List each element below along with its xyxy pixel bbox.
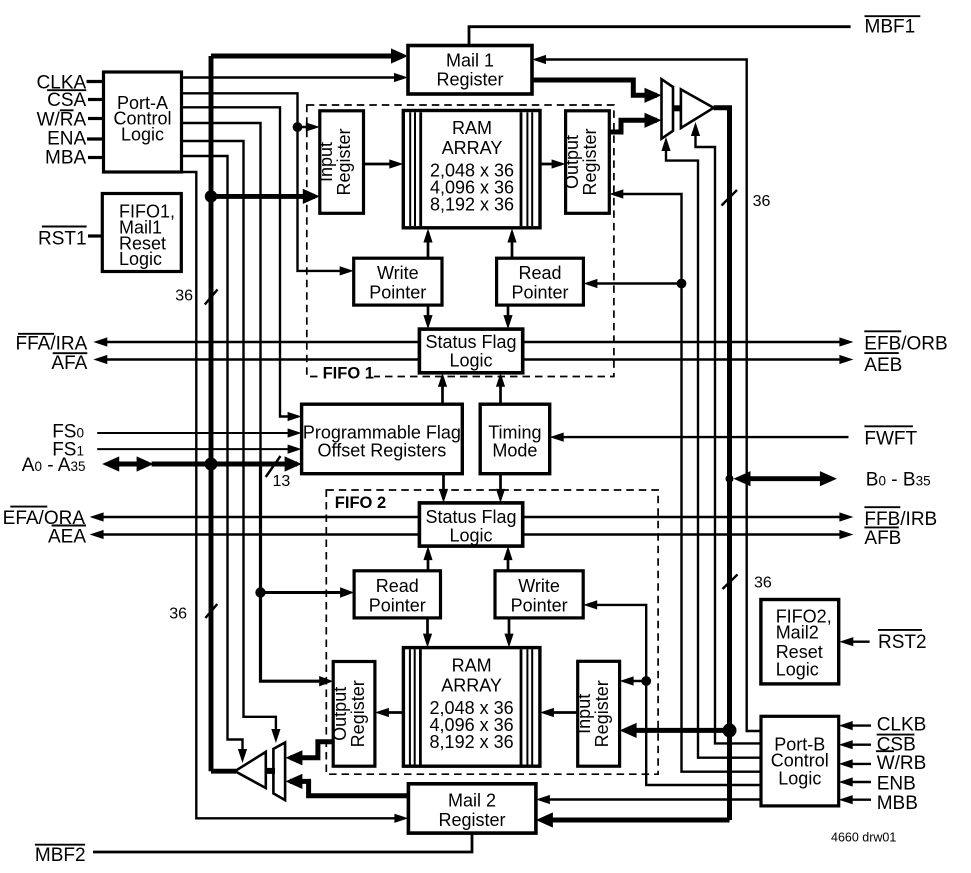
arrowhead AEA [90, 530, 104, 539]
arrowhead B bus toward bus line (left) [734, 471, 751, 486]
box Read Pointer 1 [497, 258, 584, 305]
svg-text:CSA: CSA [47, 90, 86, 111]
svg-text:Input: Input [574, 694, 594, 734]
arrowhead control into Mail 2 Register (left side) [394, 814, 408, 823]
arrowhead RAM 2 to Output Register 2 [375, 708, 389, 717]
wire Write Pointer 1 to Status Flag Logic 1 [427, 305, 430, 325]
svg-text:W/RB: W/RB [877, 753, 927, 774]
arrowhead Port-A control into Mail 1 Register [394, 73, 408, 82]
svg-text:8,192 x 36: 8,192 x 36 [430, 195, 514, 215]
svg-text:MBA: MBA [45, 147, 87, 168]
arrowhead Write Pointer 2 to Status Flag Logic 2 [503, 546, 512, 560]
arrowhead thick A bus into Mail 1 Register [391, 48, 408, 63]
wire Port-A read control via v4 to Read Pointer 2 and Output Register 2 [182, 123, 261, 464]
stub CLKB with arrowhead [843, 724, 871, 726]
wire Write Pointer 1 to RAM 1 [427, 232, 430, 258]
box Port-A Control Logic [104, 72, 182, 172]
svg-text:AFA: AFA [51, 353, 87, 374]
wire Programmable Flag to Status Flag Logic 1 [441, 377, 444, 404]
arrowhead Timing Mode to Status Flag Logic 1 [496, 373, 505, 387]
wire Timing Mode to Status Flag Logic 2 [499, 474, 502, 499]
wire AEB flag line [523, 358, 849, 360]
wire FS1 input [97, 448, 297, 450]
box Output Register 1 [566, 111, 610, 214]
svg-text:Status Flag: Status Flag [425, 332, 516, 352]
tri-state buffer 2 (A-port driver) [264, 768, 275, 774]
tri-state buffer 1 (B-port driver) [672, 105, 682, 111]
svg-text:Read: Read [376, 576, 419, 596]
svg-text:ARRAY: ARRAY [441, 675, 502, 695]
svg-text:Register: Register [580, 128, 600, 195]
svg-text:Pointer: Pointer [511, 283, 568, 303]
svg-text:AFB: AFB [864, 528, 901, 549]
junction dot A bus at A0-A35 port [205, 458, 218, 471]
box Mail 1 Register [408, 46, 532, 95]
wire Timing Mode to Status Flag Logic 1 [499, 377, 502, 404]
svg-text:ENB: ENB [877, 774, 916, 795]
svg-text:13: 13 [273, 473, 291, 490]
svg-text:Pointer: Pointer [369, 595, 426, 615]
wire Port-A control via v2 to FIFO2 output buffer enable [182, 156, 243, 757]
stub W/RA [88, 117, 104, 120]
arrowhead FWFT into Timing Mode [550, 433, 564, 442]
arrowhead thick A bus into Input Register 1 [303, 189, 320, 204]
wire Programmable Flag to Status Flag Logic 2 [442, 474, 445, 499]
arrowhead buffer1 enable (up) [691, 122, 700, 136]
junction dot on r1 at Read Pointer 1 branch [677, 279, 687, 289]
svg-text:Logic: Logic [449, 350, 492, 370]
bus B-port data to Mail 2 Register [541, 818, 730, 823]
arrowhead Write Pointer 1 to Status Flag Logic 1 [423, 315, 432, 329]
arrowhead Write Pointer 2 to RAM 2 [504, 634, 513, 648]
bus B0 - B35 bidirectional port line [741, 476, 830, 481]
wire AFA flag line [98, 358, 419, 360]
svg-text:8,192 x 36: 8,192 x 36 [430, 732, 514, 752]
box RAM ARRAY 2 [403, 648, 540, 767]
arrowhead control into Output Register 2 [319, 676, 333, 686]
bus width slash 36 (A bus upper) [205, 290, 218, 305]
arrowhead mux1 select (up) [661, 137, 670, 151]
svg-text:Mail2: Mail2 [776, 623, 819, 643]
svg-text:Logic: Logic [449, 525, 492, 545]
box Write Pointer 2 [495, 571, 583, 618]
stub CLKA [87, 80, 104, 83]
svg-text:Pointer: Pointer [369, 283, 426, 303]
arrowhead control into Read Pointer 1 [583, 279, 597, 288]
FIFO 2 dashed boundary [326, 490, 658, 774]
junction dot on v4 at Read Pointer 2 branch [255, 587, 265, 597]
bus A0 - A35 bidirectional port line [112, 462, 144, 467]
arrowhead thick Output Register 1 bus into mux 1 [645, 113, 662, 128]
svg-text:Logic: Logic [776, 660, 819, 680]
junction dot B bus at B0-B35 port [726, 475, 734, 483]
svg-text:AEB: AEB [864, 355, 902, 376]
bus width slash 36 (B bus upper) [722, 190, 738, 206]
arrowhead control into Write Pointer 2 [583, 600, 597, 609]
wire AFB flag line [523, 533, 849, 535]
FIFO 1 dashed boundary [307, 105, 614, 377]
wire Read Pointer 1 to RAM 1 [511, 232, 514, 258]
arrowhead FFB/IRB [839, 512, 853, 521]
arrowhead Read Pointer 1 to Status Flag Logic 1 [503, 315, 512, 329]
svg-text:FWFT: FWFT [864, 428, 917, 449]
bus Output Register 2 to A mux [290, 742, 333, 758]
arrowhead mux2 select (down) [271, 729, 280, 743]
svg-text:Mail 2: Mail 2 [448, 791, 496, 811]
box Mail 2 Register [408, 784, 536, 833]
svg-text:Write: Write [377, 263, 419, 283]
wire MBF2 flag from Mail 2 Register [93, 833, 472, 852]
wire FFA/IRA flag line [98, 341, 419, 343]
wire Port-B control r1 to Output Register 1 and Read Pointer 1 [614, 194, 761, 772]
box Output Register 2 [333, 662, 375, 767]
bus A data to FIFO2 read mux output (triangle apex) [211, 769, 236, 774]
arrowhead Input Register 1 to RAM 1 [389, 159, 403, 168]
svg-text:MBF1: MBF1 [865, 17, 916, 38]
arrowhead thick Mail 1 bus into mux 1 [645, 88, 662, 103]
arrowhead control into Output Register 1 [609, 189, 623, 198]
arrowhead AFA [93, 355, 107, 364]
arrowhead control into Input Register 2 [620, 676, 634, 685]
arrowhead thick B bus into Mail 2 Register [536, 812, 553, 827]
junction dot B bus at Input Register 2 branch [723, 723, 737, 737]
svg-text:Register: Register [438, 810, 505, 830]
mux 1 (B-port output multiplexer) [662, 79, 674, 139]
bus B-port data to Input Register 2 [625, 728, 730, 733]
arrowhead FFA/IRA [93, 337, 107, 346]
wire EFA/ORA flag line [94, 516, 419, 518]
wire FS0 input [97, 432, 297, 434]
svg-text:Read: Read [518, 263, 561, 283]
box Timing Mode [480, 404, 550, 474]
bus A-port data to Mail 1 Register [211, 54, 403, 59]
wire Port-B control r4 to Mail 1 Register write [537, 60, 761, 732]
box RAM ARRAY 1 [403, 111, 540, 228]
stub ENA [87, 137, 104, 140]
svg-text:Register: Register [334, 128, 354, 195]
arrowhead Read Pointer 2 to Status Flag Logic 2 [423, 546, 432, 560]
wire Write Pointer 2 to Status Flag Logic 2 [507, 550, 510, 571]
bus width slash 36 (B bus lower) [723, 575, 738, 590]
wire Port-B control r5 to Write Pointer 2 and Input Register 2 [588, 605, 761, 785]
svg-text:Logic: Logic [778, 768, 821, 788]
svg-text:FIFO 2: FIFO 2 [335, 494, 386, 512]
svg-text:Logic: Logic [121, 125, 164, 145]
arrowhead control into Write Pointer 1 [340, 266, 354, 275]
wire Read Pointer 2 to Status Flag Logic 2 [427, 550, 430, 571]
arrowhead Write Pointer 1 to RAM 1 [423, 229, 432, 243]
arrowhead Port-B control into Mail 1 Register (right side) [532, 55, 546, 64]
arrowhead RAM 1 to Output Register 1 [552, 159, 566, 168]
wire EFB/ORB flag line [523, 341, 849, 343]
junction dot on v6 control at Input Register 1 branch [293, 122, 303, 132]
box Input Register 1 [320, 111, 364, 214]
svg-text:RAM: RAM [452, 656, 492, 676]
wire AEA flag line [94, 533, 419, 535]
wire FWFT input to Timing Mode [555, 436, 849, 438]
wire FFB/IRB flag line [523, 516, 849, 518]
stub CSB with arrowhead [843, 744, 871, 746]
wire Read Pointer 1 to Status Flag Logic 1 [507, 305, 510, 325]
arrowhead thick Output Register 2 bus into mux 2 [285, 750, 302, 765]
mux 2 (A-port output multiplexer) [273, 743, 285, 801]
arrowhead control into Input Register 1 [306, 122, 320, 131]
bus A-port data to Input Register 1 [211, 194, 315, 199]
wire Port-B control to Mail 2 Register write [541, 798, 761, 800]
svg-text:36: 36 [169, 606, 187, 623]
arrowhead Read Pointer 1 to RAM 1 [507, 229, 516, 243]
svg-text:MBF2: MBF2 [35, 845, 86, 866]
svg-text:Register: Register [436, 70, 503, 90]
wire Read Pointer 2 to RAM 2 [426, 618, 429, 643]
bus A-port data vertical (36-bit) [209, 56, 214, 771]
svg-text:A0 - A35: A0 - A35 [22, 455, 86, 476]
svg-text:Mode: Mode [492, 440, 537, 460]
stub CSA [88, 98, 104, 101]
wire Port-B control r3 to FIFO1 output buffer enable [696, 127, 762, 743]
svg-text:Register: Register [592, 680, 612, 747]
svg-text:EFB/ORB: EFB/ORB [864, 333, 947, 354]
box Port-B Control Logic [761, 716, 839, 806]
stub W/RB with arrowhead [843, 763, 871, 765]
arrowhead B bus toward pins (right) [820, 471, 837, 486]
bus Mail 1 Register output to B mux [532, 80, 657, 95]
box FIFO1 Mail1 Reset Logic [102, 194, 181, 272]
wire RAM 1 to Output Register 1 [540, 163, 562, 166]
arrowhead control into Read Pointer 2 [340, 587, 354, 597]
svg-text:Output: Output [562, 135, 582, 189]
box Read Pointer 2 [354, 571, 440, 618]
arrowhead FS0 into Programmable Flag [288, 428, 302, 437]
stub RST2 with arrowhead [843, 641, 870, 643]
wire MBF1 flag from Mail 1 Register [469, 27, 851, 46]
arrowhead A bus inward (right) [137, 456, 154, 471]
stub MBB with arrowhead [843, 799, 871, 801]
stub ENB with arrowhead [843, 781, 871, 783]
bus width slash 13 (flag offset) [266, 456, 281, 477]
wire Input Register 1 to RAM 1 [364, 163, 400, 166]
arrowhead A bus into Programmable Flag Offset Registers [285, 456, 302, 471]
bus Output Register 1 to B mux [609, 120, 657, 132]
arrowhead Programmable Flag to Status Flag Logic 2 [439, 489, 448, 503]
box Programmable Flag Offset Registers [302, 404, 463, 474]
wire Port-B control r2 to FIFO1 output mux select [666, 142, 761, 758]
svg-text:RST2: RST2 [878, 632, 927, 653]
arrowhead EFA/ORA [90, 512, 104, 521]
wire Write Pointer 2 to RAM 2 [508, 618, 511, 643]
svg-text:RAM: RAM [452, 118, 492, 138]
arrowhead Programmable Flag to Status Flag Logic 1 [438, 373, 447, 387]
box Status Flag Logic 2 [419, 503, 522, 546]
arrowhead thick Mail 2 bus into mux 2 [285, 774, 302, 789]
svg-text:36: 36 [754, 575, 772, 592]
arrowhead A bus toward pins (left) [102, 456, 119, 471]
svg-text:FFA/IRA: FFA/IRA [16, 334, 88, 355]
svg-text:AEA: AEA [48, 527, 86, 548]
arrowhead control into Programmable Flag (top) [288, 412, 302, 421]
box Status Flag Logic 1 [419, 329, 522, 373]
wire Port-A control via v5 to Programmable Flag Offset Registers [182, 107, 299, 416]
stub RST1 [88, 234, 102, 237]
svg-text:36: 36 [175, 288, 193, 305]
junction dot A bus at Input Register 1 branch [205, 190, 217, 202]
svg-text:Register: Register [348, 680, 368, 747]
svg-text:36: 36 [753, 193, 771, 210]
FIFO 1 label [318, 363, 374, 378]
arrowhead FS1 into Programmable Flag [288, 445, 302, 454]
wire Port-A control via v1 to Mail 2 Register read [182, 172, 405, 818]
arrowhead AEB [839, 355, 853, 364]
bus width slash 36 (A bus lower) [205, 604, 217, 618]
junction dot on r5 at Input Register 2 branch [641, 676, 651, 686]
stub MBA [88, 156, 104, 159]
svg-text:Output: Output [330, 687, 350, 741]
svg-text:Offset Registers: Offset Registers [318, 440, 447, 460]
svg-text:ARRAY: ARRAY [442, 138, 503, 158]
wire Port-A control via v3 to FIFO2 output mux select [182, 141, 276, 737]
bus Mail 2 Register output to A mux [290, 781, 408, 795]
arrowhead Read Pointer 2 to RAM 2 [423, 634, 432, 648]
svg-text:Logic: Logic [119, 249, 162, 269]
arrowhead thick B bus into Input Register 2 [620, 723, 637, 738]
wire Port-A to Mail 1 Register control [182, 76, 405, 78]
box Input Register 2 [578, 661, 620, 766]
svg-text:FIFO 1: FIFO 1 [323, 365, 374, 383]
wire Input Register 2 to RAM 2 [544, 711, 578, 714]
svg-text:Write: Write [518, 576, 560, 596]
box Write Pointer 1 [354, 258, 442, 305]
svg-text:4660 drw01: 4660 drw01 [831, 830, 896, 844]
svg-text:Pointer: Pointer [511, 595, 568, 615]
svg-text:CLKB: CLKB [877, 715, 927, 736]
svg-text:Status Flag: Status Flag [425, 507, 516, 527]
wire Port-A write control via v6 to Write Pointer 1 and Input Register 1 [182, 93, 351, 271]
svg-text:MBB: MBB [877, 793, 918, 814]
svg-text:Mail 1: Mail 1 [446, 51, 494, 71]
arrowhead Input Register 2 to RAM 2 [540, 708, 554, 717]
arrowhead control into Mail 2 Register (right side) [536, 795, 550, 804]
box FIFO2 Mail2 Reset Logic [761, 600, 839, 684]
arrowhead Timing Mode to Status Flag Logic 2 [496, 489, 505, 503]
arrowhead buffer2 enable (down) [238, 749, 247, 763]
svg-text:Input: Input [316, 142, 336, 182]
arrowhead EFB/ORB [839, 337, 853, 346]
wire RAM 2 to Output Register 2 [379, 711, 403, 714]
svg-text:RST1: RST1 [38, 228, 87, 249]
arrowhead AFB [839, 530, 853, 539]
svg-text:B0 - B35: B0 - B35 [866, 470, 931, 491]
bus B-port data vertical (36-bit) [714, 108, 730, 820]
svg-text:W/RA: W/RA [37, 109, 87, 130]
